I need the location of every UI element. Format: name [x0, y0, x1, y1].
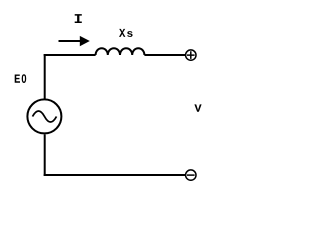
wire: left vertical from source bottom to bottom wire: [44, 134, 46, 176]
wire: top horizontal from inductor to plus terminal: [144, 54, 185, 56]
wire: left vertical from top wire to source top: [44, 54, 46, 99]
inductor Xs: [96, 48, 145, 55]
current arrow I head: [80, 36, 90, 46]
current arrow I shaft: [59, 40, 81, 42]
terminal - minus sign: [187, 174, 195, 176]
terminal - (negative output) circle: [186, 170, 196, 180]
terminal + (positive output) circle: [186, 50, 196, 60]
label E0: [15, 75, 20, 83]
terminal + plus sign: [187, 51, 195, 59]
label I: [75, 14, 82, 23]
source sine wave: [33, 111, 57, 122]
label Xs: [119, 29, 125, 37]
wire: top horizontal from corner to inductor: [44, 54, 96, 56]
wire: bottom horizontal from corner to minus terminal: [44, 174, 186, 176]
label V: [194, 104, 201, 111]
source U1 (AC voltage source E0) circle: [27, 99, 61, 133]
